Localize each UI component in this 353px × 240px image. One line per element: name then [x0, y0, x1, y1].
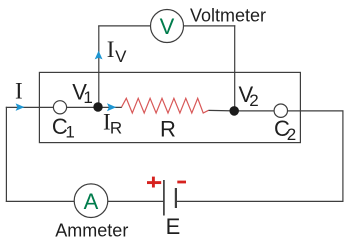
- svg-text:2: 2: [287, 125, 296, 144]
- wire: ammeter to battery positive plate: [108, 200, 164, 202]
- node V1 (junction dot): [93, 102, 102, 111]
- wire: resistor to node V2: [209, 109, 235, 112]
- svg-text:R: R: [160, 116, 176, 141]
- svg-text:Voltmeter: Voltmeter: [190, 6, 266, 26]
- wire: voltmeter top right horizontal: [183, 25, 235, 27]
- wire: bottom left to ammeter: [6, 200, 75, 202]
- svg-text:2: 2: [249, 91, 258, 110]
- svg-text:I: I: [15, 78, 23, 103]
- battery E positive plate (long): [163, 180, 165, 216]
- svg-text:E: E: [166, 214, 181, 239]
- wire: voltmeter top left horizontal: [98, 25, 150, 27]
- svg-text:R: R: [110, 118, 122, 137]
- wire: right vertical side: [342, 110, 344, 202]
- enclosure box (component box): [39, 72, 300, 142]
- battery E negative plate (short): [175, 188, 177, 208]
- svg-text:A: A: [84, 189, 99, 214]
- resistor R (zigzag): [122, 98, 209, 113]
- voltmeter V (meter circle): [151, 10, 184, 43]
- wire: left horizontal into box to terminal C1: [6, 106, 54, 108]
- wire: voltmeter left vertical from node V1 up: [98, 26, 100, 104]
- wire: C1 to node V1: [67, 106, 95, 108]
- svg-text:1: 1: [65, 122, 74, 141]
- terminal C2: [274, 104, 287, 117]
- svg-text:1: 1: [83, 88, 92, 107]
- wire: left vertical side: [5, 107, 7, 202]
- wire: node V2 to terminal C2: [234, 110, 274, 112]
- current arrow I (left wire, pointing right): [16, 103, 25, 111]
- node V2 (junction dot): [229, 106, 239, 116]
- battery minus sign: [177, 181, 186, 184]
- wire: battery negative plate to bottom right corner: [176, 200, 344, 202]
- current arrow IV (voltmeter branch, pointing up): [95, 51, 103, 60]
- ammeter A (meter circle): [74, 184, 108, 218]
- svg-text:I: I: [107, 37, 115, 62]
- svg-text:Ammeter: Ammeter: [55, 220, 128, 240]
- terminal C1: [53, 101, 66, 114]
- battery plus sign: [147, 177, 161, 188]
- wire: right horizontal from C2 out of box: [287, 110, 343, 112]
- svg-text:V: V: [115, 47, 127, 66]
- wire: voltmeter right vertical down to node V2: [234, 25, 236, 107]
- wire: node V1 to resistor: [98, 106, 122, 108]
- current arrow IR (through resistor, pointing right): [107, 103, 116, 111]
- svg-text:V: V: [160, 14, 175, 39]
